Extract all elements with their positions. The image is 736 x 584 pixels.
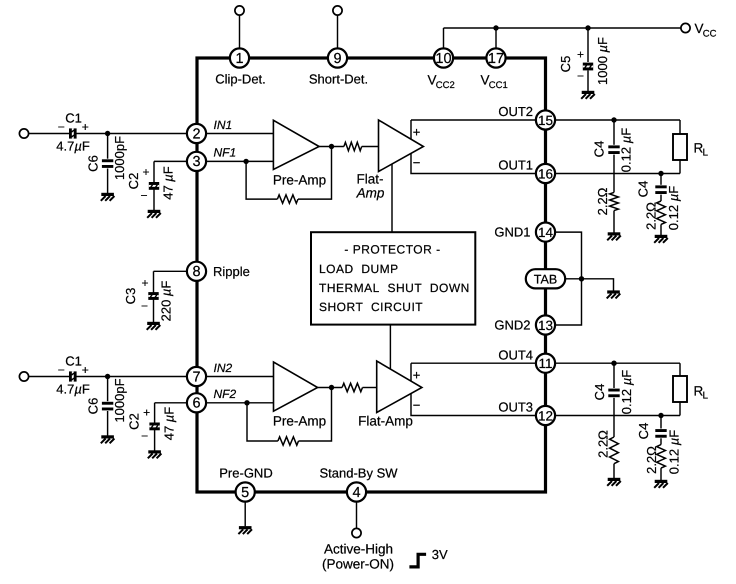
node C6 junction (ch2) [105,374,110,379]
power-amp box 1 [411,120,536,174]
svg-text:Pre-GND: Pre-GND [219,465,272,480]
terminal VCC [681,23,690,32]
svg-text:GND2: GND2 [494,318,530,333]
svg-text:- PROTECTOR -: - PROTECTOR - [344,243,440,257]
wire zobel1b (ch2) [613,363,615,478]
node OUT3 zobel junction [658,413,663,418]
wire NF1 [197,160,273,162]
wire zobel2a (ch1) [660,174,662,236]
wire input1 row [29,133,198,135]
label OUT1 [498,158,533,173]
resistor 2.2ohm (ch1 a) [610,192,619,210]
label Active-High [324,541,393,556]
svg-text:Amp: Amp [356,186,385,201]
svg-text:OUT4: OUT4 [498,347,533,362]
label C3 polarity [141,276,149,313]
capacitor C2 (ch2) [149,423,159,431]
svg-text:+: + [82,363,89,377]
capacitor C3 [148,292,158,300]
label 0.12uF (ch2 b) [666,430,681,474]
label C2 (ch2) [127,413,142,430]
pin 11 [536,354,555,373]
svg-text:0.12 µF: 0.12 µF [666,186,681,230]
svg-text:17: 17 [488,51,504,67]
svg-text:C6: C6 [86,155,101,172]
svg-text:Flat-: Flat- [357,171,384,186]
svg-text:+: + [413,368,421,383]
resistor 2.2ohm (ch1 b) [657,201,666,224]
IC body outline [197,58,546,492]
label C2 polarity (ch2) [141,406,150,444]
resistor coupling 2 [342,383,362,391]
label VCC [695,21,717,39]
label C3 [123,288,138,305]
svg-text:Pre-Amp: Pre-Amp [273,414,326,429]
svg-text:C4: C4 [635,181,650,198]
label Ripple [213,264,250,279]
svg-text:47 µF: 47 µF [161,166,176,200]
node Vcc-C5 junction [585,25,590,30]
label 2.2ohm (ch1 a) [595,187,610,215]
svg-text:CC1: CC1 [489,80,508,91]
wire preamp2 output [318,387,343,389]
ground C2 (ch2) [148,452,162,458]
ground TAB [607,292,621,298]
label LOAD DUMP [319,262,399,276]
wire preamp1 output [319,146,344,148]
capacitor C4 (ch1 a) [608,145,619,154]
svg-text:+: + [413,125,421,140]
ground zobel1a (ch1) [607,234,621,240]
wire OUT2 row [546,120,681,134]
label C5 polarity [577,48,584,84]
svg-text:−: − [577,69,584,83]
capacitor C1 (ch1) [69,128,77,138]
ground C5 [581,92,595,98]
svg-text:0.12 µF: 0.12 µF [619,370,634,414]
label C4 (ch1 b) [635,181,650,198]
label 2.2ohm (ch2 b) [644,446,659,474]
wire protector to flat-amp 2 [389,325,391,370]
svg-text:13: 13 [538,318,553,333]
svg-text:4.7µF: 4.7µF [56,382,90,397]
svg-text:2.2Ω: 2.2Ω [643,202,658,230]
label IN1 [214,118,233,132]
capacitor C6 (ch2) [102,402,113,411]
pin 8 [187,262,206,281]
resistor 2.2ohm (ch2 b) [657,445,666,469]
label power-amp1 - [413,155,421,170]
svg-text:+: + [142,165,149,179]
svg-text:1000pF: 1000pF [112,378,127,422]
label C4 (ch2 b) [636,423,651,440]
waveform 3V step [409,554,426,567]
svg-text:6: 6 [192,396,200,412]
label SHORT CIRCUIT [319,300,423,314]
pin 6 [187,393,206,412]
pin 5 [236,482,255,501]
wire C5 branch [587,28,589,91]
label Stand-By SW [319,465,398,480]
wire C6 branch (ch1) [107,134,109,194]
svg-text:Ripple: Ripple [213,264,250,279]
label 0.12uF (ch1 a) [618,128,633,172]
label C2 polarity (ch1) [140,165,149,203]
svg-text:LOAD DUMP: LOAD DUMP [319,262,399,276]
svg-text:C6: C6 [86,398,101,415]
capacitor C4 (ch1 b) [655,185,666,194]
svg-text:3V: 3V [432,547,448,562]
label Flat-Amp 1 [356,171,385,200]
wire pin1 to top terminal [239,15,241,58]
pin 1 [230,48,249,67]
svg-text:10: 10 [435,51,451,67]
svg-text:0.12 µF: 0.12 µF [666,430,681,474]
resistor RL (ch1) [673,134,687,160]
op-amp Pre-Amp 2 [274,362,318,411]
svg-text:12: 12 [538,408,553,423]
capacitor C1 (ch2) [69,371,77,381]
label 0.12uF (ch2 a) [619,370,634,414]
svg-text:C4: C4 [592,384,607,401]
svg-text:C2: C2 [127,413,142,430]
op-amp Flat-Amp 2 [377,361,422,413]
power-amp box 2 [411,363,536,415]
ground C2 (ch1) [147,211,161,217]
label power-amp1 + [413,125,421,140]
label Pre-Amp 1 [273,173,326,188]
label 1000pF (ch2) [112,378,127,422]
wire to flat-amp 2 [363,387,377,389]
svg-text:16: 16 [538,166,553,181]
svg-text:8: 8 [192,264,200,280]
wire NF2 [197,402,274,404]
svg-text:2.2Ω: 2.2Ω [595,187,610,215]
svg-text:9: 9 [333,51,341,67]
svg-text:1000pF: 1000pF [112,136,127,180]
label Clip-Det. [215,71,266,86]
label Pre-GND [219,465,272,480]
svg-text:Flat-Amp: Flat-Amp [358,414,413,429]
node OUT2 zobel junction [611,117,616,122]
terminal input 2 [19,372,28,381]
label C2 (ch1) [126,173,141,190]
pin 4 [347,482,366,501]
op-amp Pre-Amp 1 [273,120,319,169]
svg-text:+: + [141,276,148,290]
svg-text:NF2: NF2 [214,387,237,401]
svg-text:14: 14 [538,225,554,240]
resistor RL (ch2) [673,376,687,402]
label OUT4 [498,347,533,362]
label 4.7uF (ch2) [56,382,90,397]
label power-amp2 - [413,398,421,413]
ground zobel2a (ch1) [654,236,668,242]
wire pin4 stub [356,492,358,529]
label RL (ch1) [694,141,709,159]
wire feedback loop 1 [246,147,331,200]
wire Vcc rail [444,28,682,58]
svg-text:15: 15 [538,113,553,128]
label OUT3 [498,400,533,415]
terminal stand-by [352,528,361,537]
label 1000uF (C5) [595,37,610,85]
wire IN2 [197,376,274,378]
label C4 (ch1 a) [591,141,606,158]
capacitor C6 (ch1) [102,159,113,168]
label C1 (ch1) [65,110,82,125]
terminal above pin 9 [333,6,342,15]
svg-text:C5: C5 [558,56,573,73]
terminal input 1 [19,129,28,138]
wire pin5 ground stub [244,492,246,526]
svg-text:−: − [140,189,147,203]
label 3V [432,547,448,562]
capacitor C4 (ch2 a) [608,389,619,398]
wire flat-amp1 to protector [391,160,393,232]
node TAB junction [579,276,584,281]
svg-text:7: 7 [192,369,200,385]
label 47uF (ch2) [161,407,176,441]
svg-text:47 µF: 47 µF [161,407,176,441]
node preamp2 output junction [329,385,334,390]
label VCC2 [428,73,455,92]
svg-text:GND1: GND1 [494,225,530,240]
resistor feedback 1 [277,195,298,203]
svg-text:Pre-Amp: Pre-Amp [273,173,326,188]
svg-text:C1: C1 [65,110,82,125]
wire NF2 to C2 [155,403,197,451]
resistor feedback 2 [278,437,299,445]
svg-text:5: 5 [241,485,249,501]
svg-text:2: 2 [192,126,200,142]
svg-text:OUT2: OUT2 [498,104,533,119]
label IN2 [214,361,233,375]
svg-text:−: − [413,398,421,413]
pin 9 [328,48,347,67]
svg-text:NF1: NF1 [214,146,237,160]
label 4.7uF (ch1) [56,139,90,154]
svg-text:TAB: TAB [534,272,557,286]
svg-text:CC: CC [703,29,717,40]
svg-text:2.2Ω: 2.2Ω [644,446,659,474]
svg-text:SHORT CIRCUIT: SHORT CIRCUIT [319,300,423,314]
label NF1 [214,146,237,160]
pin 2 [187,124,206,143]
svg-text:−: − [58,363,65,377]
svg-text:220 µF: 220 µF [158,281,173,322]
svg-text:−: − [413,155,421,170]
wire zobel2b (ch2) [660,416,662,481]
pin 14 [536,223,555,242]
wire NF1 to C2 [154,161,197,210]
label VCC1 [481,73,508,92]
pin 7 [187,367,206,386]
wire ripple to C3 [154,271,198,322]
svg-text:−: − [141,299,148,313]
label Short-Det. [309,71,368,86]
label GND2 [494,318,530,333]
label power-amp2 + [413,368,421,383]
svg-text:Active-High: Active-High [324,541,393,556]
svg-text:+: + [143,406,150,420]
svg-text:CC2: CC2 [436,80,455,91]
svg-text:3: 3 [192,154,200,170]
svg-text:0.12 µF: 0.12 µF [618,128,633,172]
svg-text:Short-Det.: Short-Det. [309,71,368,86]
svg-text:+: + [577,48,584,62]
node NF2 feedback junction [244,400,249,405]
svg-text:OUT1: OUT1 [498,158,533,173]
node Vcc-pin17 junction [493,25,498,30]
pin 16 [536,164,555,183]
wire C6 branch (ch2) [107,377,109,436]
svg-text:2.2Ω: 2.2Ω [595,430,610,458]
label OUT2 [498,104,533,119]
label C1 polarity (ch1) [58,120,89,134]
wire OUT1 row [546,160,681,174]
node preamp1 output junction [329,144,334,149]
svg-text:C1: C1 [65,353,82,368]
wire pin9 to top terminal [337,15,339,58]
label C6 (ch1) [86,155,101,172]
ground C6 (ch2) [101,437,115,443]
label GND1 [494,225,530,240]
op-amp Flat-Amp 1 [379,120,424,172]
svg-text:IN1: IN1 [214,118,233,132]
label C6 (ch2) [86,398,101,415]
svg-text:C2: C2 [126,173,141,190]
label NF2 [214,387,237,401]
svg-text:IN2: IN2 [214,361,233,375]
label C1 (ch2) [65,353,82,368]
capacitor C5 [583,63,593,71]
ground C6 (ch1) [101,194,115,200]
svg-text:Stand-By SW: Stand-By SW [319,465,398,480]
label RL (ch2) [694,384,709,402]
svg-text:11: 11 [538,356,552,371]
svg-text:OUT3: OUT3 [498,400,533,415]
node OUT4 zobel junction [611,361,616,366]
svg-text:C4: C4 [591,141,606,158]
terminal above pin 1 [235,6,244,15]
svg-text:4: 4 [352,485,360,501]
svg-text:+: + [82,120,89,134]
wire feedback loop 2 [247,388,332,442]
svg-text:C4: C4 [636,423,651,440]
label 0.12uF (ch1 b) [666,186,681,230]
wire input2 row [29,376,198,378]
label PROTECTOR [344,243,440,257]
svg-text:THERMAL SHUT DOWN: THERMAL SHUT DOWN [319,281,470,295]
wire TAB to ground [546,279,614,291]
label C5 [558,56,573,73]
ground Pre-GND [238,528,252,534]
svg-text:(Power-ON): (Power-ON) [322,556,394,571]
resistor coupling 1 [344,142,362,150]
svg-text:4.7µF: 4.7µF [56,139,90,154]
pin 10 [434,48,453,67]
svg-text:−: − [141,429,148,443]
pin TAB [526,269,565,288]
pin 3 [187,152,206,171]
capacitor C2 (ch1) [149,182,159,190]
pin 15 [536,110,555,129]
svg-text:−: − [58,120,65,134]
svg-text:L: L [703,148,709,159]
wire OUT3 row [546,402,681,416]
wire IN1 [197,133,273,135]
ground zobel1b (ch2) [607,479,621,485]
capacitor C4 (ch2 b) [655,429,666,438]
wire to flat-amp 1 [362,146,379,148]
label 2.2ohm (ch1 b) [643,202,658,230]
ground C3 [147,323,161,329]
ground zobel2b (ch2) [654,481,668,487]
label Pre-Amp 2 [273,414,326,429]
resistor 2.2ohm (ch2 a) [610,437,619,464]
node OUT1 zobel junction [658,171,663,176]
svg-text:Clip-Det.: Clip-Det. [215,71,266,86]
wire GND1-GND2 link [546,232,582,325]
label 1000pF (ch1) [112,136,127,180]
label C4 (ch2 a) [592,384,607,401]
node C6 junction (ch1) [105,131,110,136]
label 2.2ohm (ch2 a) [595,430,610,458]
svg-text:1: 1 [235,51,243,67]
protector block [311,232,475,324]
label THERMAL SHUT DOWN [319,281,470,295]
label 220uF [158,281,173,322]
wire OUT4 row [546,363,681,376]
label C1 polarity (ch2) [58,363,89,377]
pin 13 [536,315,555,334]
svg-text:L: L [703,391,709,402]
label 47uF (ch1) [161,166,176,200]
pin 17 [486,48,505,67]
pin 12 [536,406,555,425]
node NF1 feedback junction [243,159,248,164]
svg-text:1000 µF: 1000 µF [595,37,610,85]
wire zobel1a (ch1) [613,120,615,233]
svg-text:C3: C3 [123,288,138,305]
label Flat-Amp 2 [358,414,413,429]
label Power-ON [322,556,394,571]
